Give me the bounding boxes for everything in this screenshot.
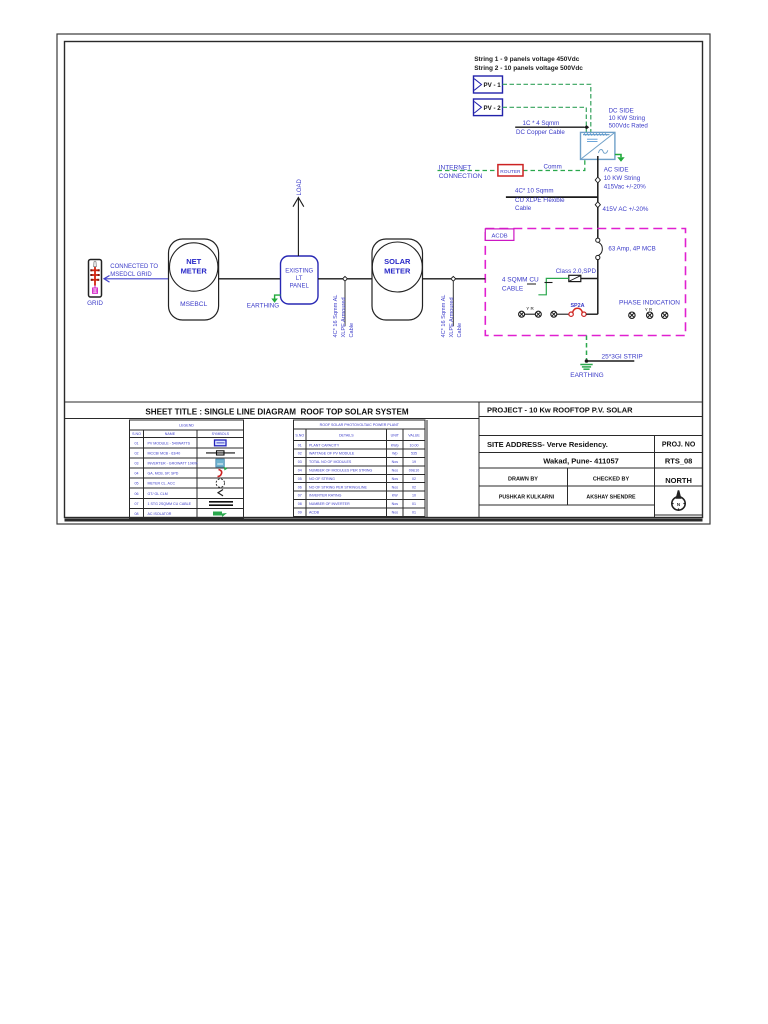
- svg-text:N: N: [677, 502, 680, 507]
- svg-text:SOLAR: SOLAR: [384, 257, 411, 266]
- svg-text:NORTH: NORTH: [665, 476, 692, 485]
- svg-text:NO OF STRING PER STRING/LINE: NO OF STRING PER STRING/LINE: [309, 485, 368, 489]
- svg-text:SITE ADDRESS- Verve Residency.: SITE ADDRESS- Verve Residency.: [487, 440, 608, 449]
- svg-text:PLANT CAPACITY: PLANT CAPACITY: [309, 443, 340, 447]
- svg-text:Cable: Cable: [349, 323, 355, 338]
- svg-text:RTS_08: RTS_08: [665, 457, 693, 466]
- svg-text:ACDB: ACDB: [309, 511, 320, 515]
- svg-text:Y R: Y R: [526, 306, 534, 311]
- svg-text:63 Amp, 4P MCB: 63 Amp, 4P MCB: [608, 246, 655, 253]
- svg-text:LT: LT: [296, 276, 303, 282]
- svg-text:NET: NET: [186, 257, 201, 266]
- svg-text:SHEET TITLE : SINGLE LINE DIAG: SHEET TITLE : SINGLE LINE DIAGRAM ROOF T…: [145, 408, 408, 417]
- svg-text:Nos: Nos: [392, 485, 399, 489]
- svg-text:XLPE Armoured: XLPE Armoured: [341, 297, 347, 337]
- svg-text:4C* 10 Sqmm: 4C* 10 Sqmm: [515, 188, 554, 195]
- svg-text:AC SIDE: AC SIDE: [604, 167, 629, 174]
- svg-text:06: 06: [135, 492, 139, 496]
- svg-text:Nos: Nos: [392, 502, 399, 506]
- svg-text:DC SIDE: DC SIDE: [609, 107, 634, 114]
- svg-text:String 2 - 10 panels voltage 5: String 2 - 10 panels voltage 500Vdc: [474, 65, 583, 72]
- svg-text:4C* 16 Sqmm AL: 4C* 16 Sqmm AL: [441, 295, 447, 338]
- svg-text:4C* 16 Sqmm AL: 4C* 16 Sqmm AL: [333, 295, 339, 338]
- svg-text:500Vdc Rated: 500Vdc Rated: [609, 122, 649, 129]
- svg-text:08: 08: [135, 512, 139, 516]
- svg-text:07: 07: [135, 502, 139, 506]
- svg-text:SYMBOLS: SYMBOLS: [212, 432, 230, 436]
- svg-text:02: 02: [412, 477, 416, 481]
- svg-text:08: 08: [298, 502, 302, 506]
- svg-text:03: 03: [298, 460, 302, 464]
- svg-text:02: 02: [298, 452, 302, 456]
- svg-text:MSEBCL: MSEBCL: [180, 301, 207, 308]
- svg-text:S.NO: S.NO: [295, 433, 304, 437]
- svg-text:XLPE Armoured: XLPE Armoured: [449, 297, 455, 337]
- svg-text:10 KW String: 10 KW String: [609, 115, 646, 122]
- svg-text:String 1 - 9 panels voltage 45: String 1 - 9 panels voltage 450Vdc: [474, 56, 580, 63]
- svg-text:Nos: Nos: [392, 460, 399, 464]
- svg-text:Nos: Nos: [392, 477, 399, 481]
- svg-text:535: 535: [411, 452, 417, 456]
- svg-text:09: 09: [298, 511, 302, 515]
- svg-text:10: 10: [412, 494, 416, 498]
- svg-text:INVERTER RATING: INVERTER RATING: [309, 494, 342, 498]
- svg-text:NAME: NAME: [165, 432, 176, 436]
- svg-text:DC Copper Cable: DC Copper Cable: [516, 129, 565, 136]
- svg-text:PANEL: PANEL: [290, 284, 310, 290]
- svg-text:06: 06: [298, 485, 302, 489]
- svg-text:05: 05: [298, 477, 302, 481]
- svg-text:03: 03: [135, 462, 139, 466]
- svg-text:Y R: Y R: [645, 307, 653, 312]
- svg-text:MCCB/ MCB - 63/40: MCCB/ MCB - 63/40: [148, 451, 181, 455]
- svg-text:CU XLPE Flexible: CU XLPE Flexible: [515, 197, 565, 204]
- svg-text:LOAD: LOAD: [297, 178, 303, 195]
- svg-text:Class 2.0,SPD: Class 2.0,SPD: [556, 268, 597, 275]
- svg-text:AKSHAY SHENDRE: AKSHAY SHENDRE: [586, 495, 636, 501]
- svg-text:S.NO: S.NO: [132, 432, 141, 436]
- svg-text:PV - 1: PV - 1: [484, 82, 502, 89]
- svg-text:25*3GI STRIP: 25*3GI STRIP: [602, 354, 643, 361]
- svg-text:04: 04: [135, 472, 139, 476]
- svg-text:NUMBER OF MODULES PER STRING: NUMBER OF MODULES PER STRING: [309, 469, 373, 473]
- svg-text:Cable: Cable: [515, 205, 532, 212]
- svg-text:09&10: 09&10: [409, 469, 419, 473]
- svg-text:GRID: GRID: [87, 300, 103, 307]
- svg-text:01: 01: [298, 443, 302, 447]
- svg-text:LEGEND: LEGEND: [179, 423, 194, 427]
- svg-text:10.00: 10.00: [410, 443, 419, 447]
- svg-text:4 SQMM CU: 4 SQMM CU: [502, 277, 539, 284]
- svg-text:METER CL. ACC: METER CL. ACC: [148, 482, 176, 486]
- svg-text:TOTAL NO OF MODULES: TOTAL NO OF MODULES: [309, 460, 352, 464]
- svg-text:ROOF SOLAR PHOTOVOLTAIC POWER: ROOF SOLAR PHOTOVOLTAIC POWER PLANT: [320, 423, 400, 427]
- svg-text:UNIT: UNIT: [391, 433, 400, 437]
- svg-text:EARTHING: EARTHING: [570, 372, 603, 379]
- svg-text:EARTHING: EARTHING: [247, 303, 280, 310]
- svg-text:02: 02: [412, 485, 416, 489]
- svg-text:CABLE: CABLE: [502, 286, 524, 293]
- svg-text:1C * 4 Sqmm: 1C * 4 Sqmm: [523, 120, 560, 127]
- svg-text:CONNECTED TO: CONNECTED TO: [110, 264, 158, 270]
- svg-text:Comm: Comm: [544, 163, 562, 170]
- svg-text:19: 19: [412, 460, 416, 464]
- svg-text:DETAILS: DETAILS: [339, 433, 354, 437]
- svg-text:PROJECT - 10 Kw ROOFTOP P.V. S: PROJECT - 10 Kw ROOFTOP P.V. SOLAR: [487, 406, 633, 415]
- svg-text:INVERTER - GROWATT 10KW: INVERTER - GROWATT 10KW: [148, 462, 199, 466]
- svg-text:KWp: KWp: [391, 443, 399, 447]
- svg-text:NUMBER OF INVERTER: NUMBER OF INVERTER: [309, 502, 350, 506]
- svg-text:PV - 2: PV - 2: [484, 105, 502, 112]
- svg-text:05: 05: [135, 482, 139, 486]
- svg-text:GA, MCB, SP, SPD: GA, MCB, SP, SPD: [148, 472, 179, 476]
- svg-text:EXISTING: EXISTING: [285, 269, 313, 275]
- svg-text:01: 01: [412, 502, 416, 506]
- svg-text:AC ISOLATOR: AC ISOLATOR: [148, 512, 172, 516]
- svg-text:Nos: Nos: [392, 469, 399, 473]
- svg-text:CHECKED BY: CHECKED BY: [593, 477, 630, 483]
- svg-text:PROJ. NO: PROJ. NO: [662, 442, 696, 449]
- svg-text:01: 01: [412, 511, 416, 515]
- svg-text:CONNECTION: CONNECTION: [439, 173, 483, 180]
- svg-text:PV MODULE - 540WATTS: PV MODULE - 540WATTS: [148, 441, 191, 445]
- svg-text:VALUE: VALUE: [408, 433, 420, 437]
- svg-text:Wp: Wp: [392, 452, 397, 456]
- svg-text:NO OF STRING: NO OF STRING: [309, 477, 335, 481]
- svg-text:PHASE INDICATION: PHASE INDICATION: [619, 300, 680, 307]
- svg-text:04: 04: [298, 469, 302, 473]
- svg-text:1 STG 2SQMM CU CABLE: 1 STG 2SQMM CU CABLE: [148, 502, 192, 506]
- svg-text:10 KW String: 10 KW String: [604, 175, 641, 182]
- svg-text:Nos: Nos: [392, 511, 399, 515]
- svg-text:02: 02: [135, 451, 139, 455]
- svg-text:ACDB: ACDB: [492, 233, 508, 239]
- svg-text:DRAWN BY: DRAWN BY: [508, 477, 538, 483]
- svg-text:MSEDCL GRID: MSEDCL GRID: [110, 272, 152, 278]
- svg-text:415Vac +/-20%: 415Vac +/-20%: [604, 184, 647, 191]
- svg-text:Wakad, Pune- 411057: Wakad, Pune- 411057: [543, 457, 619, 466]
- svg-text:ROUTER: ROUTER: [500, 169, 521, 175]
- svg-text:WATTAGE OF PV MODULE: WATTAGE OF PV MODULE: [309, 452, 355, 456]
- svg-text:PUSHKAR KULKARNI: PUSHKAR KULKARNI: [499, 495, 555, 501]
- svg-text:METER: METER: [384, 267, 411, 276]
- svg-text:METER: METER: [181, 267, 208, 276]
- svg-text:Cable: Cable: [457, 323, 463, 338]
- svg-text:415V AC +/-20%: 415V AC +/-20%: [603, 206, 649, 213]
- svg-text:07: 07: [298, 494, 302, 498]
- svg-text:GT/ GL CLM: GT/ GL CLM: [148, 492, 168, 496]
- svg-text:01: 01: [135, 441, 139, 445]
- svg-text:KW: KW: [392, 494, 398, 498]
